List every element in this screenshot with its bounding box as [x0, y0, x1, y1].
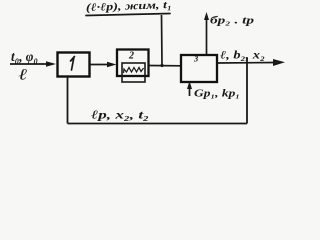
feedback wire: down from block1 [67, 77, 69, 124]
svg-text:ℓр, x₂, t₂: ℓр, x₂, t₂ [91, 108, 149, 122]
wire block2 to block3 [149, 65, 182, 67]
svg-text:2: 2 [128, 51, 134, 62]
zigzag inside inner box [124, 68, 144, 74]
feedback wire: bottom horizontal [68, 123, 248, 125]
wire from top label down to line between block 2 and 3 [161, 15, 164, 66]
feedback wire: right vertical from output [246, 58, 248, 124]
svg-text:ℓ, b₂, x₂: ℓ, b₂, x₂ [220, 50, 265, 62]
svg-text:ℓ: ℓ [19, 67, 28, 84]
output wire with arrow [217, 59, 285, 66]
block 2 [117, 50, 149, 77]
junction dot [160, 64, 163, 67]
block 3 [181, 55, 217, 82]
svg-text:Gр₁, kр₁: Gр₁, kр₁ [194, 89, 240, 100]
wire block1 to block2 with arrowhead [90, 62, 117, 68]
label 1 [71, 57, 75, 71]
arrow up into block 3 bottom [187, 81, 192, 96]
svg-text:бр₂ . tр: бр₂ . tр [210, 16, 254, 27]
svg-text:t₀, φ₀: t₀, φ₀ [11, 50, 38, 65]
input arrow into block 1 [10, 61, 56, 67]
inner box of block 2 [122, 63, 145, 82]
arrow up from block 3 top [204, 12, 209, 55]
block 1 [58, 53, 90, 77]
svg-text:3: 3 [193, 54, 199, 64]
underline of top equation [86, 14, 170, 16]
